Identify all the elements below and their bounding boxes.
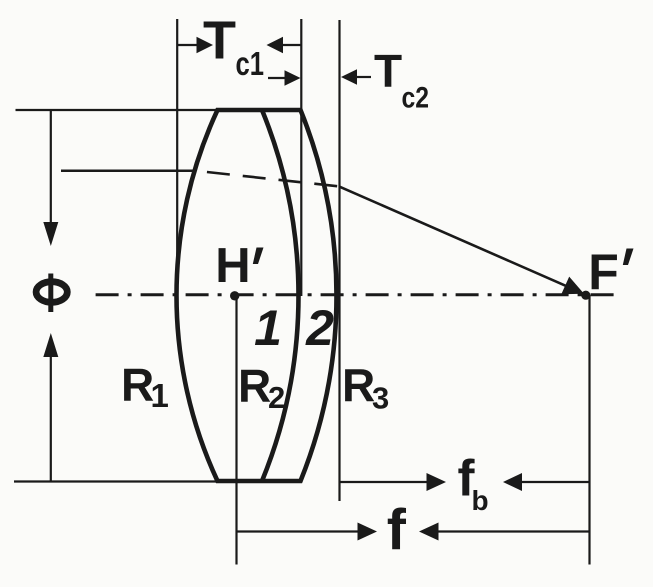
svg-text:1: 1: [254, 300, 282, 356]
svg-text:H: H: [215, 239, 250, 293]
svg-text:c1: c1: [236, 45, 265, 82]
svg-text:2: 2: [305, 300, 334, 356]
svg-text:3: 3: [372, 380, 389, 415]
svg-text:R: R: [121, 358, 154, 410]
svg-text:1: 1: [151, 377, 169, 414]
svg-text:2: 2: [268, 380, 285, 415]
svg-text:c2: c2: [402, 82, 430, 115]
svg-text:R: R: [238, 359, 271, 411]
svg-text:f: f: [387, 498, 407, 562]
svg-text:b: b: [472, 485, 489, 516]
svg-text:T: T: [374, 45, 402, 97]
svg-text:T: T: [203, 10, 236, 70]
svg-text:F: F: [588, 244, 619, 300]
svg-text:R: R: [342, 359, 375, 411]
